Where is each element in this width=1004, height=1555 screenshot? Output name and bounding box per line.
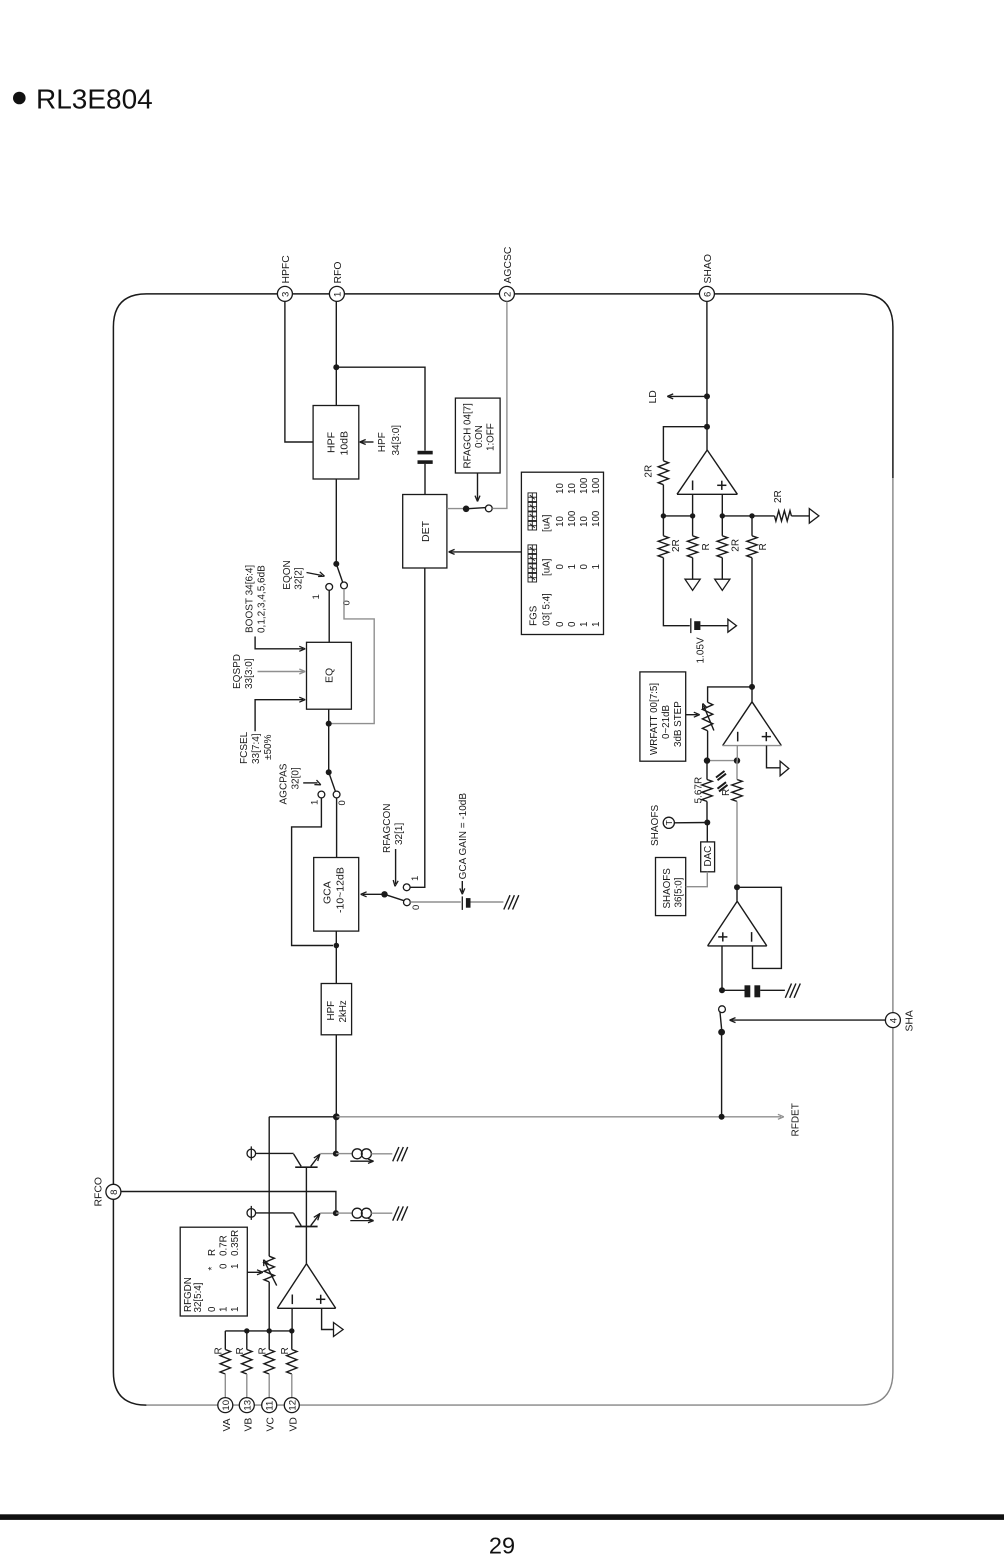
svg-text:VA: VA bbox=[222, 1418, 233, 1431]
SHAOFS 36[5:0] box bbox=[656, 858, 686, 916]
node RFDET junction bbox=[333, 1113, 340, 1120]
DET box bbox=[403, 495, 447, 569]
HPF 10dB box bbox=[313, 406, 359, 480]
svg-text:RFDET: RFDET bbox=[791, 1103, 802, 1136]
svg-text:1: 1 bbox=[591, 564, 602, 569]
SHA switch lever bbox=[720, 1012, 722, 1029]
wire RFDET to left branch bbox=[269, 1116, 336, 1118]
battery 1.05V thick plate bbox=[694, 621, 700, 630]
IC body outline (grey part) bbox=[146, 478, 893, 1405]
svg-text:R: R bbox=[701, 543, 712, 550]
svg-text:8: 8 bbox=[109, 1190, 120, 1195]
svg-text:AGCSC: AGCSC bbox=[503, 246, 514, 283]
wire ladder3 bbox=[721, 516, 723, 536]
svg-text:29: 29 bbox=[489, 1533, 515, 1555]
AGC switch lever bbox=[466, 508, 486, 509]
AGC switch common bbox=[463, 506, 470, 513]
wire AGCSC pin to switch bbox=[492, 302, 507, 509]
node RFDET SHA branch bbox=[719, 1114, 725, 1120]
HPF 34[3:0] arrow bbox=[362, 441, 374, 443]
svg-text:GCA GAIN = -10dB: GCA GAIN = -10dB bbox=[458, 793, 469, 880]
node below GCA bbox=[334, 943, 340, 949]
EQON contact 0 bbox=[341, 582, 348, 589]
wire 2R out to term bbox=[791, 515, 809, 517]
ground G2 bbox=[785, 984, 791, 998]
wire node to opamp U1 bbox=[706, 427, 708, 450]
ladder resistors R VA-VD bbox=[224, 1331, 226, 1350]
svg-text:10: 10 bbox=[555, 516, 566, 527]
wire Q1 node to cs bbox=[336, 1153, 352, 1155]
node row R3 bbox=[267, 1328, 272, 1333]
svg-text:RFCO: RFCO bbox=[94, 1177, 105, 1206]
svg-text:R: R bbox=[214, 1347, 225, 1354]
svg-text:3: 3 bbox=[280, 292, 291, 297]
svg-text:T: T bbox=[664, 820, 674, 825]
resistor 5.67R bbox=[702, 780, 712, 802]
transistor Q1 bbox=[295, 1166, 317, 1168]
node U3 plus bbox=[719, 987, 725, 993]
svg-text:VB: VB bbox=[243, 1418, 254, 1432]
svg-text:12: 12 bbox=[287, 1400, 298, 1411]
wire 5.67R to node bbox=[706, 801, 708, 822]
svg-text:0.7R: 0.7R bbox=[219, 1235, 230, 1256]
wire AGCPAS-0 to GCA bbox=[336, 798, 338, 858]
wire I2 to ground bbox=[371, 1212, 392, 1214]
node SHAOFS bbox=[704, 820, 710, 826]
svg-text:32[0]: 32[0] bbox=[291, 767, 302, 789]
svg-text:0: 0 bbox=[207, 1306, 218, 1312]
svg-text:EQON: EQON bbox=[282, 560, 293, 589]
svg-text:R: R bbox=[758, 543, 769, 550]
svg-text:VC: VC bbox=[266, 1417, 277, 1432]
svg-text:1: 1 bbox=[230, 1264, 241, 1269]
wire HPF to EQON switch bbox=[335, 479, 337, 564]
svg-text:AGCPAS: AGCPAS bbox=[279, 763, 290, 804]
battery 1.05V thin plate bbox=[690, 618, 692, 633]
RFAGCON label arrow bbox=[395, 849, 397, 884]
footer rule bbox=[0, 1514, 1004, 1520]
svg-text:1: 1 bbox=[219, 1307, 230, 1312]
resistor 2R feedback bbox=[658, 461, 668, 485]
svg-text:1: 1 bbox=[230, 1307, 241, 1312]
wire VR1 top bbox=[708, 687, 752, 702]
Q1 collector terminal bbox=[247, 1149, 256, 1158]
svg-text:5.67R: 5.67R bbox=[694, 777, 705, 804]
svg-text:R: R bbox=[235, 1347, 246, 1354]
svg-text:[uA]: [uA] bbox=[542, 514, 553, 532]
wire ladder4 down bbox=[751, 558, 753, 687]
wire U3 node to apex bbox=[736, 887, 738, 901]
base rail Q1 Q2 bbox=[305, 1167, 307, 1264]
node Q2 emitter bbox=[333, 1210, 339, 1216]
svg-text:EQSPD: EQSPD bbox=[232, 654, 243, 689]
terminal tri U2 bbox=[780, 761, 789, 776]
wire Q1 emitter node up bbox=[335, 1117, 337, 1154]
wire U4 minus bbox=[291, 1308, 293, 1331]
svg-text:-10~12dB: -10~12dB bbox=[335, 867, 347, 913]
wire DET down bbox=[410, 568, 425, 887]
U3 feedback bbox=[737, 887, 781, 968]
GCA box bbox=[314, 858, 359, 932]
RFGDN arrow bbox=[247, 1271, 261, 1273]
left branch down bbox=[268, 1117, 270, 1256]
capacitor C1 plate 1 bbox=[418, 451, 433, 455]
svg-text:2R: 2R bbox=[671, 539, 682, 552]
GCA GAIN arrow bbox=[461, 881, 463, 892]
wire row to R stepped bbox=[736, 761, 738, 780]
wire U1 minus bbox=[692, 494, 694, 516]
wire C1 to DET bbox=[424, 464, 426, 495]
svg-text:0,1,2,3,4,5,6dB: 0,1,2,3,4,5,6dB bbox=[257, 565, 268, 633]
feedback wire U1 bbox=[663, 427, 707, 461]
FGS arrow to DET bbox=[450, 551, 521, 553]
svg-text:4: 4 bbox=[888, 1017, 899, 1023]
svg-text:36[5:0]: 36[5:0] bbox=[674, 877, 685, 907]
wire VR1 bottom bbox=[707, 731, 709, 761]
svg-text:1: 1 bbox=[567, 564, 578, 569]
pin 10 VA bbox=[218, 1398, 233, 1413]
SHA switch common bbox=[718, 1029, 725, 1036]
svg-text:11: 11 bbox=[265, 1401, 276, 1411]
node junction RFO branch bbox=[333, 364, 339, 370]
svg-text:±50%: ±50% bbox=[263, 734, 274, 760]
wire node to DAC bbox=[706, 823, 708, 842]
AGCPAS switch common bbox=[326, 769, 332, 775]
wire EQ node to AGCPAS bbox=[328, 724, 330, 773]
svg-text:SHAOFS: SHAOFS bbox=[662, 868, 673, 909]
wire pin6 down bbox=[706, 302, 708, 397]
svg-text:10: 10 bbox=[555, 483, 566, 494]
svg-text:32[5:4]: 32[5:4] bbox=[193, 1282, 204, 1312]
pin 4 SHA bbox=[885, 1013, 900, 1028]
node row R4 bbox=[289, 1328, 294, 1333]
svg-text:0: 0 bbox=[411, 905, 422, 910]
svg-text:1: 1 bbox=[579, 622, 590, 627]
svg-text:34[3:0]: 34[3:0] bbox=[391, 425, 402, 456]
svg-text:WRFATT 00[7:5]: WRFATT 00[7:5] bbox=[649, 683, 660, 755]
svg-text:1: 1 bbox=[332, 292, 343, 297]
node below EQ bbox=[326, 721, 332, 727]
capacitor C3 plate 2 bbox=[754, 985, 760, 997]
wire battery to term bbox=[700, 625, 728, 627]
node U2 row right bbox=[734, 757, 740, 763]
resistor R stepped bbox=[732, 780, 742, 802]
VR2 arrow bbox=[265, 1262, 277, 1286]
svg-text:0:ON: 0:ON bbox=[474, 425, 485, 448]
svg-text:*: * bbox=[207, 1267, 218, 1271]
op-amp U4 bbox=[277, 1264, 306, 1309]
wire LD to fb node bbox=[706, 396, 708, 426]
node LD bbox=[704, 393, 710, 399]
svg-text:0: 0 bbox=[555, 564, 566, 570]
op-amp U3 bbox=[708, 901, 738, 946]
transistor Q2 bbox=[295, 1226, 317, 1228]
svg-text:32[2]: 32[2] bbox=[294, 567, 305, 589]
wire C3 to ground bbox=[760, 989, 785, 991]
AGC switch contact bbox=[485, 505, 492, 512]
resistor R ladder2 bbox=[687, 536, 697, 558]
op-amp U1 bbox=[677, 450, 707, 494]
U2 row bbox=[707, 760, 737, 762]
title bullet bbox=[13, 92, 26, 105]
resistor 2R ladder1 bbox=[658, 536, 668, 558]
pin 6 SHAO bbox=[699, 286, 714, 301]
svg-text:HPF: HPF bbox=[326, 1001, 337, 1021]
svg-text:RFO: RFO bbox=[333, 262, 344, 284]
SHA switch contact bbox=[719, 1006, 726, 1013]
terminal tri U4 bbox=[334, 1323, 344, 1337]
Q1 collector wire bbox=[256, 1152, 294, 1154]
SHA pin arrow bbox=[732, 1019, 886, 1021]
svg-text:0: 0 bbox=[337, 800, 348, 805]
RFAGCON lever bbox=[385, 894, 405, 900]
AGCPAS contact 0 bbox=[333, 791, 340, 798]
svg-text:RFAGCON: RFAGCON bbox=[382, 804, 393, 853]
capacitor C2 plate thick bbox=[466, 898, 471, 908]
svg-text:1: 1 bbox=[311, 594, 322, 599]
svg-text:RFAGCH 04[7]: RFAGCH 04[7] bbox=[463, 403, 474, 469]
row segment A bbox=[663, 515, 692, 517]
svg-text:[uA]: [uA] bbox=[542, 558, 553, 576]
AGCPAS switch lever bbox=[329, 772, 336, 791]
variable resistor VR1 bbox=[702, 702, 712, 731]
node U2 out bbox=[749, 684, 755, 690]
svg-text:2kHz: 2kHz bbox=[338, 1000, 349, 1022]
svg-text:0: 0 bbox=[579, 564, 590, 570]
WRFATT box bbox=[640, 672, 686, 761]
svg-text:10: 10 bbox=[579, 516, 590, 527]
svg-text:1: 1 bbox=[310, 800, 321, 805]
Q1 emitter wire bbox=[320, 1153, 336, 1155]
capacitor C2 plate thin bbox=[461, 896, 463, 910]
svg-text:3dB STEP: 3dB STEP bbox=[673, 701, 684, 747]
RFDET rail bbox=[336, 1116, 781, 1118]
wire pin1 down bbox=[335, 302, 337, 368]
node U3 out bbox=[734, 884, 740, 890]
wire U3 plus bbox=[721, 946, 723, 990]
svg-text:SHAOFS: SHAOFS bbox=[650, 805, 661, 846]
AGCPAS bypass wire bbox=[292, 798, 333, 946]
EQON label arrow bbox=[307, 573, 323, 576]
HPF 2kHz box bbox=[321, 984, 351, 1035]
ground G4 bbox=[393, 1206, 399, 1220]
wire ladder4 top bbox=[751, 516, 753, 536]
wire U2 node to apex bbox=[751, 687, 753, 702]
svg-text:0.35R: 0.35R bbox=[230, 1230, 241, 1256]
svg-text:1.05V: 1.05V bbox=[695, 637, 706, 663]
pin 1 RFO bbox=[329, 286, 344, 301]
wire EQ out bbox=[328, 709, 330, 723]
EQ box bbox=[307, 642, 352, 709]
wire U2 minus bbox=[736, 746, 738, 761]
Q2 collector terminal bbox=[247, 1209, 256, 1218]
svg-text:1: 1 bbox=[410, 876, 421, 881]
wire HPF2k out bbox=[335, 1035, 337, 1117]
EQSPD arrow bbox=[258, 671, 304, 673]
wire EQON-1 to EQ bbox=[328, 590, 330, 642]
pin 8 RFCO bbox=[106, 1184, 121, 1199]
svg-text:SHA: SHA bbox=[905, 1010, 916, 1031]
wire I1 to ground bbox=[371, 1153, 392, 1155]
wire U1 plus bbox=[721, 494, 723, 516]
svg-text:VD: VD bbox=[288, 1417, 299, 1431]
FCSEL arrow bbox=[255, 700, 303, 732]
terminal tri 2R bbox=[809, 509, 819, 524]
svg-text:0: 0 bbox=[567, 621, 578, 627]
wire U4 plus bbox=[322, 1308, 334, 1329]
op-amp U2 bbox=[723, 702, 752, 746]
current source I1 bbox=[352, 1149, 362, 1159]
wire ladder1 to battery bbox=[663, 558, 689, 626]
svg-text:100: 100 bbox=[591, 477, 602, 494]
svg-text:03[ 5:4]: 03[ 5:4] bbox=[542, 593, 553, 626]
svg-text:R: R bbox=[258, 1347, 269, 1354]
wire GCA out bbox=[335, 931, 337, 945]
op-amp U4 output wire bbox=[305, 1263, 307, 1265]
node row R2 bbox=[244, 1328, 249, 1333]
RFCO rail bbox=[121, 1192, 336, 1214]
svg-text:BOOST 34[6:4]: BOOST 34[6:4] bbox=[245, 565, 256, 633]
node rowB left bbox=[720, 513, 725, 518]
FGS kanji col1 bbox=[528, 573, 537, 582]
resistor 2R ladder3 bbox=[717, 536, 727, 558]
wire SHA common down bbox=[721, 1032, 723, 1117]
AGCPAS contact 1 bbox=[318, 791, 325, 798]
svg-text:SHAO: SHAO bbox=[703, 254, 714, 283]
svg-text:2R: 2R bbox=[773, 490, 784, 503]
wire DET to AGC switch bbox=[447, 508, 466, 510]
wire C2 to ground bbox=[471, 901, 504, 903]
capacitor C1 plate 2 bbox=[418, 460, 433, 464]
wire U2 plus bbox=[767, 746, 781, 768]
RFAGCH arrow bbox=[477, 473, 479, 500]
AGCPAS label arrow bbox=[303, 782, 317, 784]
R stepped marks bbox=[716, 771, 725, 778]
svg-text:1: 1 bbox=[591, 622, 602, 627]
wire GCA node to HPF2k bbox=[335, 946, 337, 984]
node U2 row left bbox=[704, 757, 710, 763]
ground G1 bbox=[504, 895, 510, 909]
svg-text:HPF: HPF bbox=[326, 432, 338, 453]
pin 2 AGCSC bbox=[499, 286, 514, 301]
FGS table box bbox=[521, 472, 603, 634]
svg-text:32[1]: 32[1] bbox=[394, 823, 405, 845]
VR1 arrow bbox=[704, 706, 714, 731]
LD arrow bbox=[670, 395, 708, 397]
SHAOFS T terminal bbox=[663, 817, 674, 828]
pin 11 VC bbox=[262, 1398, 277, 1413]
svg-text:100: 100 bbox=[579, 477, 590, 494]
wire junction to HPF top bbox=[335, 367, 337, 405]
pin 3 HPFC bbox=[277, 286, 292, 301]
svg-text:FCSEL: FCSEL bbox=[239, 731, 250, 764]
wire junction to DET branch bbox=[336, 367, 425, 450]
ground G3 bbox=[393, 1147, 399, 1161]
wire ladder1 top bbox=[662, 516, 664, 536]
RFAGCON contact 0 bbox=[404, 899, 411, 906]
RFAGCON switch common bbox=[381, 891, 387, 897]
svg-text:10: 10 bbox=[221, 1400, 232, 1411]
EQON switch lever bbox=[336, 564, 343, 583]
EQON switch common bbox=[333, 561, 339, 567]
WRFATT arrow bbox=[686, 714, 698, 716]
wire T to node bbox=[674, 822, 707, 824]
ground tri ladder2 bbox=[685, 579, 700, 590]
Q2 collector wire bbox=[256, 1212, 294, 1214]
svg-text:10dB: 10dB bbox=[339, 431, 351, 456]
DAC box bbox=[701, 842, 715, 872]
node Q1 emitter bbox=[333, 1151, 339, 1157]
wire Q2 node to cs bbox=[336, 1212, 352, 1214]
wire ladder2 bbox=[692, 516, 694, 536]
svg-text:33[7:4]: 33[7:4] bbox=[251, 733, 262, 764]
wire EQON-0 bypass bbox=[332, 589, 375, 724]
IC body outline (black part) bbox=[113, 294, 893, 1405]
svg-text:1:OFF: 1:OFF bbox=[486, 423, 497, 451]
svg-text:R: R bbox=[280, 1347, 291, 1354]
svg-text:10: 10 bbox=[567, 483, 578, 494]
svg-text:100: 100 bbox=[567, 510, 578, 527]
svg-text:0: 0 bbox=[219, 1263, 230, 1269]
svg-text:R: R bbox=[207, 1249, 218, 1256]
row segment B bbox=[722, 515, 774, 517]
svg-text:DAC: DAC bbox=[703, 846, 714, 867]
svg-text:RL3E804: RL3E804 bbox=[36, 84, 153, 115]
svg-text:0~21dB: 0~21dB bbox=[661, 704, 672, 739]
Q2 emitter wire bbox=[320, 1212, 336, 1214]
svg-text:2R: 2R bbox=[644, 465, 655, 478]
svg-text:0: 0 bbox=[555, 621, 566, 627]
resistor R ladder4 bbox=[747, 536, 757, 558]
wire SHAOFS box to DAC bbox=[686, 872, 708, 887]
svg-text:HPF: HPF bbox=[377, 432, 388, 452]
svg-text:13: 13 bbox=[242, 1400, 253, 1411]
RFDET arrow bbox=[778, 1114, 784, 1117]
svg-text:LD: LD bbox=[648, 390, 659, 403]
svg-text:2: 2 bbox=[502, 292, 513, 297]
RFAGCON arrow to GCA bbox=[363, 893, 382, 895]
wire 2R to row bbox=[662, 485, 664, 516]
BOOST arrow bbox=[255, 637, 303, 649]
terminal tri battery bbox=[728, 619, 737, 632]
wire R stepped down bbox=[736, 801, 738, 887]
svg-text:DET: DET bbox=[420, 520, 432, 542]
svg-text:0: 0 bbox=[342, 600, 353, 605]
RFAGCH box bbox=[455, 398, 500, 473]
current source I2 bbox=[352, 1208, 362, 1218]
ground tri ladder3 bbox=[715, 579, 730, 590]
svg-text:100: 100 bbox=[591, 510, 602, 527]
node rowA right bbox=[690, 513, 695, 518]
wire row to 5.67R bbox=[706, 761, 708, 780]
svg-text:EQ: EQ bbox=[324, 668, 336, 683]
wire pin3 to HPF input bbox=[285, 302, 313, 443]
svg-text:HPFC: HPFC bbox=[281, 255, 292, 284]
wire node to C3 bbox=[722, 989, 745, 991]
svg-text:33[3:0]: 33[3:0] bbox=[244, 658, 255, 689]
resistor 2R output bbox=[775, 511, 792, 521]
node feedback bbox=[704, 424, 710, 430]
svg-text:2R: 2R bbox=[731, 539, 742, 552]
capacitor C3 plate 1 bbox=[745, 985, 751, 997]
svg-text:FGS: FGS bbox=[529, 605, 540, 626]
variable resistor VR2 bbox=[264, 1256, 274, 1282]
resistor node row bbox=[225, 1330, 291, 1332]
svg-text:GCA: GCA bbox=[322, 881, 334, 904]
wire VR2 to row bbox=[268, 1282, 270, 1331]
RFAGCON contact 1 bbox=[403, 884, 410, 891]
EQON contact 1 bbox=[326, 584, 333, 591]
